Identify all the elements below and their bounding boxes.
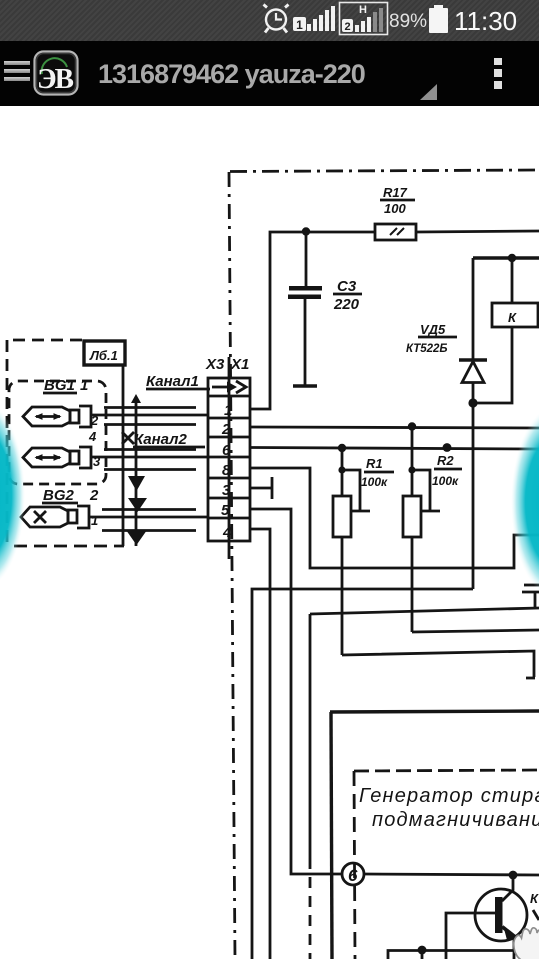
shield arcs wire3: [102, 510, 196, 531]
node relay top: [508, 254, 516, 262]
svg-text:100к: 100к: [432, 474, 459, 488]
overflow menu dots: [493, 58, 503, 89]
module label box Лб.1: [84, 341, 125, 365]
node on bus B right: [443, 443, 452, 452]
generator block box: [330, 711, 539, 959]
spinner triangle: [420, 84, 438, 101]
dash-dot border top: [230, 170, 539, 172]
diode VD5: [459, 258, 487, 403]
wire pin3 stub: [249, 477, 272, 499]
outer shield dashed box: [7, 340, 124, 546]
svg-text:1: 1: [80, 377, 88, 394]
svg-text:Канал1: Канал1: [146, 373, 199, 390]
wire relay coil top lead: [511, 258, 514, 303]
alarm clock icon: [264, 5, 289, 33]
svg-text:4: 4: [88, 429, 97, 444]
wire R1 bottom to right: [342, 651, 535, 678]
wire R17 left to pin1: [251, 232, 375, 409]
svg-text:К: К: [530, 891, 539, 906]
svg-text:5: 5: [221, 502, 230, 519]
label KT fragment: [530, 891, 539, 920]
touch hand cursor: [514, 928, 539, 959]
connector pin numbers: [221, 402, 232, 541]
wire bus B (pin6): [251, 448, 539, 450]
svg-text:100: 100: [384, 201, 406, 216]
connector header X3 X1: [205, 356, 249, 373]
svg-text:8: 8: [222, 462, 231, 479]
node R1 top on bus B: [338, 444, 346, 452]
module box right edge wire: [122, 365, 125, 546]
label BG1: [43, 377, 88, 394]
SIM2 signal box: [340, 3, 388, 35]
transistor base bar: [495, 897, 503, 933]
label Канал1: [146, 373, 210, 390]
svg-text:100к: 100к: [361, 475, 388, 489]
node diode bottom junction: [468, 398, 477, 407]
node C3 junction: [302, 227, 310, 235]
svg-text:6: 6: [348, 866, 358, 885]
bottom wire with node: [388, 946, 514, 959]
label Канал2: [122, 431, 205, 448]
capacitor C3 label: [333, 278, 362, 313]
hamburger menu: [4, 61, 30, 65]
transistor emitter lead: [502, 925, 517, 959]
transistor base wire: [446, 913, 495, 959]
glow left: [0, 401, 25, 589]
dash-dot border left: [229, 172, 235, 959]
shield arrow 3: [126, 530, 147, 545]
wire pin8 to block: [250, 468, 539, 568]
svg-text:1: 1: [224, 402, 232, 419]
head BG1-2: [23, 448, 70, 467]
diode VD5 label: [406, 322, 457, 355]
svg-text:подмагничивания: подмагничивания: [372, 809, 539, 831]
svg-text:220: 220: [333, 296, 360, 313]
wire head3 to connector: [89, 516, 207, 519]
resistor R1: [333, 448, 370, 655]
connector X3/X1 body: [208, 378, 250, 541]
wire head2 to connector: [91, 456, 207, 459]
svg-text:2: 2: [89, 487, 99, 504]
svg-text:К: К: [508, 310, 517, 325]
svg-text:1: 1: [91, 513, 98, 528]
wire pin4 down: [249, 529, 270, 959]
wire diode column to left rail: [252, 589, 473, 959]
svg-text:BG1: BG1: [44, 377, 75, 394]
app title: [98, 59, 365, 90]
svg-text:2: 2: [221, 421, 231, 438]
svg-text:VД5: VД5: [420, 322, 446, 337]
resistor R17: [375, 224, 416, 240]
wire R2 bottom to right: [412, 630, 539, 632]
svg-text:R2: R2: [437, 453, 454, 468]
connector arrow cell: [212, 381, 246, 393]
shield arcs wire2: [104, 450, 196, 470]
svg-text:C3: C3: [337, 278, 357, 295]
wire stub right edge: [522, 585, 539, 609]
svg-text:R17: R17: [383, 185, 408, 200]
transistor collector lead: [502, 875, 513, 901]
connector center line: [228, 357, 231, 559]
svg-text:BG2: BG2: [43, 487, 75, 504]
svg-text:Лб.1: Лб.1: [89, 348, 118, 363]
wire pin5 down: [249, 509, 342, 874]
label conductor 4: [88, 429, 97, 444]
plug pair 2: [70, 447, 101, 469]
resistor R1 label: [361, 456, 394, 489]
svg-text:R1: R1: [366, 456, 383, 471]
wire bus A (pin2): [251, 427, 539, 428]
wire head1 to connector: [91, 414, 207, 417]
svg-text:КТ522Б: КТ522Б: [406, 343, 448, 355]
head BG2 erase: [21, 507, 68, 527]
SIM1 signal badge: [293, 17, 306, 32]
generator dashed label box: [354, 770, 539, 959]
battery icon: [429, 5, 448, 33]
svg-text:X3: X3: [205, 356, 225, 373]
wire relay coil bottom lead: [473, 327, 512, 403]
node 6 circle: [342, 863, 364, 885]
label BG2: [42, 487, 99, 504]
shield arrow 2: [128, 498, 147, 512]
node R2 top on bus A: [408, 422, 416, 430]
node collector junction: [509, 871, 518, 880]
wire vertical from diode node down: [472, 403, 475, 589]
shield drain wire: [131, 394, 141, 546]
EBookDroid app icon: [33, 50, 79, 96]
plug pair 3: [68, 506, 98, 528]
resistor R2: [403, 426, 440, 632]
svg-text:6: 6: [222, 442, 231, 459]
shield arcs wire1: [104, 408, 196, 425]
inner dashed box BG1: [9, 381, 106, 484]
head BG1-1: [23, 407, 70, 426]
wire branch down right: [310, 608, 539, 959]
transistor VT circle: [475, 889, 527, 941]
relay coil K: [492, 303, 538, 327]
svg-text:3: 3: [222, 482, 231, 499]
capacitor C3: [288, 232, 322, 386]
plug pair 1: [70, 406, 99, 428]
wire node6 to transistor: [364, 874, 539, 875]
glow right: [511, 406, 539, 598]
generator label text: [359, 785, 539, 831]
svg-text:X1: X1: [230, 356, 249, 373]
resistor R2 label: [432, 453, 462, 488]
wire R17 right: [416, 231, 539, 232]
svg-text:Канал2: Канал2: [134, 431, 187, 448]
wire relay top branch: [473, 256, 539, 259]
resistor R17 label: [380, 185, 415, 216]
SIM1 signal bars: [307, 6, 335, 31]
shield arrow 1: [128, 476, 145, 491]
svg-text:Генератор стира: Генератор стира: [359, 785, 539, 807]
svg-text:4: 4: [222, 524, 232, 541]
